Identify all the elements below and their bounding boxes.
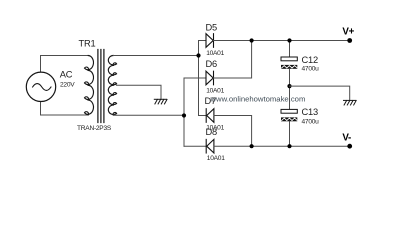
svg-text:V+: V+ bbox=[342, 27, 354, 38]
diode D5 bbox=[206, 34, 214, 48]
diode D7 bbox=[206, 109, 214, 123]
svg-text:AC: AC bbox=[60, 70, 73, 80]
wire secondary bottom B to diode column bbox=[113, 114, 184, 116]
svg-text:www.onlinehowtomake.com: www.onlinehowtomake.com bbox=[210, 95, 306, 104]
terminal V+ bbox=[347, 38, 352, 43]
svg-text:10A01: 10A01 bbox=[206, 88, 224, 95]
transformer TR1 primary winding bbox=[85, 56, 94, 115]
wire A to D5 anode bbox=[199, 40, 207, 42]
svg-text:C13: C13 bbox=[302, 107, 318, 117]
svg-text:10A01: 10A01 bbox=[207, 155, 225, 162]
svg-text:C12: C12 bbox=[302, 55, 318, 65]
node mid rail bbox=[287, 84, 291, 88]
wire V+ rail bbox=[214, 40, 350, 42]
wire mid rail to ground bbox=[290, 86, 350, 100]
node A junction bbox=[196, 53, 200, 57]
svg-text:V-: V- bbox=[342, 132, 351, 143]
svg-text:D6: D6 bbox=[206, 59, 218, 69]
wire B riser x=184 bbox=[183, 78, 185, 146]
wire center tap to ground bbox=[117, 85, 162, 99]
ground (center tap) bbox=[154, 99, 167, 104]
svg-text:10A01: 10A01 bbox=[206, 50, 224, 57]
svg-text:4700u: 4700u bbox=[302, 118, 320, 125]
node D5/D6 cathodes bbox=[250, 38, 254, 42]
node D7/D8 anodes bbox=[250, 144, 254, 148]
wire D7 anode drop bbox=[214, 116, 252, 147]
svg-text:D5: D5 bbox=[206, 23, 218, 33]
terminal V- bbox=[347, 144, 352, 149]
wire D6 cathode riser bbox=[214, 41, 252, 79]
wire C12 top lead bbox=[289, 41, 291, 58]
diode D6 bbox=[206, 71, 214, 85]
wire A to D7 cathode bbox=[199, 115, 207, 117]
svg-text:220V: 220V bbox=[60, 82, 75, 89]
wire secondary top A to diode column bbox=[113, 55, 198, 57]
wire AC source bottom loop bbox=[41, 102, 89, 115]
node B junction bbox=[182, 113, 186, 117]
AC source V1 bbox=[26, 72, 55, 101]
svg-text:D8: D8 bbox=[206, 127, 218, 137]
diode D8 bbox=[206, 139, 214, 153]
ground (output common) bbox=[344, 100, 357, 105]
wire V- rail bbox=[214, 145, 350, 147]
svg-text:TRAN-2P3S: TRAN-2P3S bbox=[77, 125, 112, 132]
transformer TR1 secondary winding bbox=[108, 56, 116, 116]
svg-text:TR1: TR1 bbox=[79, 39, 96, 49]
capacitor C12 bbox=[281, 57, 297, 61]
svg-text:4700u: 4700u bbox=[302, 66, 320, 73]
node C12 top bbox=[287, 38, 291, 42]
capacitor C13 bbox=[281, 109, 297, 113]
wire B to D6 anode bbox=[184, 77, 206, 79]
node C13 bottom bbox=[287, 144, 291, 148]
wire C13 bottom lead bbox=[289, 121, 291, 146]
wire A riser x=198.5 bbox=[198, 41, 200, 116]
wire B to D8 cathode bbox=[184, 145, 206, 147]
transformer TR1 core bbox=[98, 50, 104, 123]
wire C12 bottom to C13 top bbox=[289, 69, 291, 110]
wire AC source top loop bbox=[41, 56, 89, 72]
